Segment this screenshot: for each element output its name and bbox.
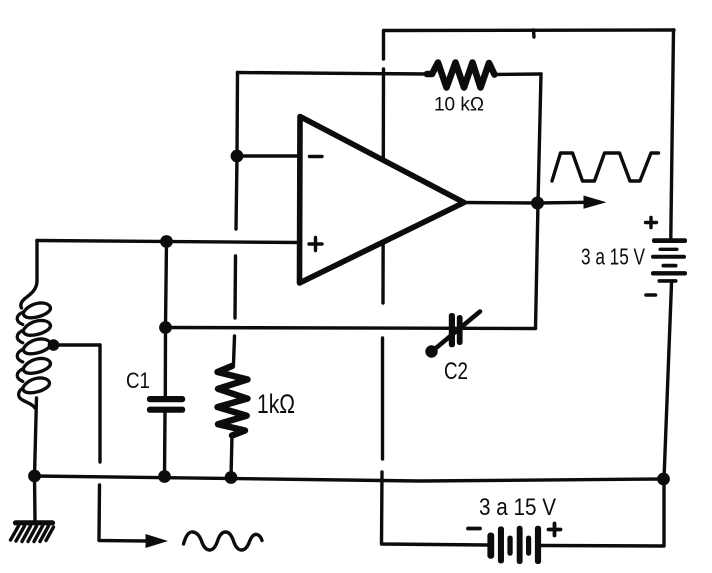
node ground bus C1	[158, 470, 171, 483]
wire right vertical (top rail to battery B1 +)	[671, 30, 674, 238]
label + (battery B2)	[549, 524, 561, 536]
capacitor C1 plates	[147, 396, 185, 413]
ground symbol	[33, 476, 37, 520]
capacitor C2 plates (variable)	[449, 313, 463, 347]
arrow of variable capacitor C2	[433, 312, 480, 351]
node plus input junction	[160, 235, 173, 248]
label minus (battery B2)	[468, 527, 480, 531]
svg-text:C1: C1	[126, 368, 150, 393]
svg-text:10 kΩ: 10 kΩ	[434, 94, 484, 116]
wire output from op-amp apex	[464, 201, 586, 205]
svg-text:3 a 15 V: 3 a 15 V	[581, 244, 645, 270]
waveform sine wave (tap output symbol)	[184, 532, 263, 550]
wire tap vertical down (crossover gap at ground bus) then to sine arrow	[99, 345, 148, 541]
node junction right vertical / ground bus	[657, 473, 670, 486]
wire resistor R2 bottom to bus	[231, 436, 232, 478]
wire left vertical rail (top rail down to bottom battery)	[382, 31, 488, 546]
svg-text:3 a 15 V: 3 a 15 V	[479, 494, 556, 521]
wire coil tap to corner	[54, 343, 101, 346]
wire vertical minus-input branch (corner down to node, then to 1k resistor)	[234, 73, 238, 365]
label minus input sign	[310, 155, 323, 158]
node ground bus 1k	[225, 471, 238, 484]
node output junction	[531, 197, 544, 210]
node minus input junction	[231, 150, 244, 163]
node coil tap	[48, 339, 60, 351]
wire plus input (coil top corner to op-amp)	[37, 241, 299, 243]
svg-text:C2: C2	[444, 358, 468, 385]
wire ground bus (horizontal)	[35, 476, 664, 481]
wire right vertical (battery B1 - down to ground bus and bottom wire)	[542, 284, 672, 547]
inductor L1 (coil)	[21, 241, 37, 309]
wire resistor R1 right to corner	[495, 72, 542, 76]
wire feedback right vertical (resistor corner down through output node to C2 corner)	[536, 74, 542, 329]
node ground bus left	[28, 470, 41, 483]
op-amp U1 triangle	[300, 117, 465, 284]
wire C1 branch vertical (plus node down through C2 node and C1 to bus)	[165, 242, 167, 477]
battery B2 3 a 15 V (bottom)	[487, 526, 541, 564]
resistor R1 10 kOhm (zigzag)	[427, 63, 495, 88]
wire C2 horizontal (C1 branch node to feedback corner)	[166, 328, 536, 329]
label minus (battery B1)	[646, 293, 656, 297]
waveform square wave (output symbol)	[552, 153, 659, 181]
label plus input sign	[309, 238, 322, 251]
resistor R2 1 kOhm (vertical zigzag)	[218, 366, 248, 436]
svg-text:1kΩ: 1kΩ	[257, 389, 295, 419]
node C2-wire junction on C1 branch	[159, 321, 172, 334]
wire top rail	[384, 28, 674, 32]
battery B1 3 a 15 V (right side)	[651, 238, 687, 283]
wire coil bottom to ground bus	[35, 398, 37, 476]
arrowhead output	[584, 196, 607, 209]
wire minus input to op-amp	[237, 154, 299, 157]
wire tick on top rail	[532, 30, 536, 37]
label + (battery B1 plus)	[646, 217, 657, 227]
arrowhead sine output	[146, 534, 169, 548]
wire feedback top (minus input corner to resistor R1 left)	[238, 73, 428, 75]
